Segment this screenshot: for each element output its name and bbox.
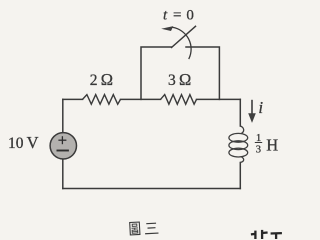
svg-text:2: 2 — [90, 72, 98, 89]
svg-text:3: 3 — [168, 72, 176, 89]
svg-text:H: H — [266, 135, 278, 154]
svg-text:Ω: Ω — [101, 70, 113, 89]
svg-text:10: 10 — [8, 135, 24, 152]
svg-text:3: 3 — [256, 145, 261, 156]
svg-text:V: V — [27, 133, 39, 152]
svg-text:Ω: Ω — [179, 70, 191, 89]
svg-text:0: 0 — [186, 8, 194, 24]
svg-text:i: i — [258, 98, 263, 117]
svg-text:=: = — [173, 8, 181, 24]
